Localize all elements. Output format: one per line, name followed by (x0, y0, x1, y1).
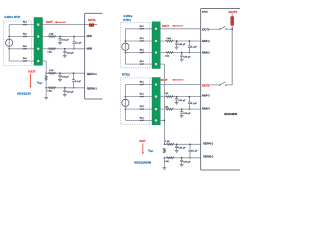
capacitor C4 0.01 uF to ground + ground (59, 73, 61, 75)
wire: RTD1 lead RL4 to terminal block (125, 62, 152, 65)
svg-text:RTD1: RTD1 (123, 18, 131, 22)
junction: RTD top sense node (8, 36, 10, 38)
svg-text:ADS1220: ADS1220 (17, 91, 31, 95)
wire: REFP to ADC (46, 72, 84, 75)
RTD2 lead resistance RL4 (140, 120, 144, 121)
terminal block J2 (RTD1) (152, 22, 160, 69)
capacitor C1 0.01 uF to ground + ground (59, 37, 61, 39)
annotation arrow: IOUT current direction (left) (56, 21, 66, 24)
junction: RTD2 AINN filter node (181, 108, 183, 110)
svg-text:REFP0-1: REFP0-1 (87, 73, 98, 76)
resistor R9 1 kOhm (REFP filter) (167, 143, 174, 145)
svg-text:AINN-3: AINN-3 (202, 107, 211, 110)
capacitor C3 0.1 uF differential AINP-AINN (73, 37, 75, 42)
RTD1 lead resistance RL2 (140, 40, 144, 41)
capacitor C11 0.01 uF to ground + ground (181, 109, 183, 112)
capacitor C5 0.01 uF to ground + ground (64, 88, 66, 91)
wire: RTD sensor vertical bus (124, 85, 127, 121)
capacitor C14 0.01 uF to ground + ground (181, 158, 183, 161)
resistor R4 1 kOhm (REFN filter) (48, 87, 55, 89)
wire: RTD1 excitation from mux pin (160, 27, 200, 30)
wire: REFP0-2 to ADC (164, 143, 200, 146)
terminal block J1 (left) (34, 18, 43, 66)
resistor R7 1 kOhm (166, 96, 173, 98)
capacitor C9 0.1 uF differential RTD1 (188, 41, 190, 46)
wire: RTD2 lead RL4 to terminal block (125, 119, 152, 122)
RTD1 lead resistance RL3 (140, 52, 144, 53)
wire: RTD2 AINN-3 signal (160, 107, 200, 110)
svg-text:AINP: AINP (86, 35, 92, 38)
reference resistor RREF (right) (163, 148, 165, 153)
wire: RTD sensor vertical bus (124, 29, 127, 64)
capacitor C13 0.01 uF to ground + ground (176, 144, 178, 146)
wire: REFN to ADC (46, 86, 84, 89)
junction: RTD bottom sense node (8, 48, 10, 50)
ADC boundary (ADS1220 partial outline) (83, 13, 86, 99)
junction: RTD1 AINP filter node (176, 40, 178, 42)
junction: REFN filter node (right) (181, 157, 183, 159)
junction: AINN filter node (64, 48, 66, 50)
svg-text:AINP-3: AINP-3 (202, 95, 210, 98)
svg-text:1 kΩ: 1 kΩ (164, 161, 169, 163)
junction: REFP filter node (59, 72, 61, 74)
wire: IDAC feed stub (231, 13, 234, 16)
capacitor C12 0.1 uF differential RTD2 (188, 97, 190, 102)
RTD1 lead resistance RL4 (140, 63, 144, 64)
svg-text:0.1 µF: 0.1 µF (191, 103, 198, 105)
junction: REFN node (right) (164, 157, 166, 159)
wire: lead RL2 to terminal block (9, 35, 34, 38)
capacitor C6 0.1 uF differential REFP-REFN (72, 73, 74, 80)
switch S1 (IDAC mux to RTD1) (219, 29, 220, 30)
RTD2 probe dashed enclosure (121, 78, 150, 124)
svg-text:IOUT: IOUT (28, 70, 35, 74)
wire: lead RL1 to terminal block (9, 23, 34, 26)
resistor R3 1 kOhm (REFP filter) (48, 72, 55, 74)
wire: lead RL4 to terminal block (9, 59, 34, 62)
wire: reference bus to ground (right) (163, 158, 166, 168)
svg-text:ADS124S08: ADS124S08 (134, 161, 151, 165)
annotation arrow: return current direction (left) (29, 74, 32, 87)
resistor R2 1 kOhm (AINN filter) (48, 48, 55, 50)
RTD2 lead resistance RL2 (140, 96, 144, 97)
svg-text:0.01 µF: 0.01 µF (178, 148, 186, 150)
svg-text:0.1 µF: 0.1 µF (76, 43, 83, 45)
junction: REFN filter node (64, 87, 66, 89)
wire: REFN0-2 to ADC (164, 156, 200, 159)
annotation arrow: RTD1 IOUT direction (174, 24, 184, 27)
svg-text:0.01 µF: 0.01 µF (184, 162, 192, 164)
junction: REFP node (right) (164, 143, 166, 145)
junction: REFN node (45, 87, 47, 89)
junction: RTD2 return on reference bus (164, 120, 166, 122)
wire: RTD2 lead RL2 to terminal block (125, 95, 152, 98)
svg-text:IOUT0: IOUT0 (202, 28, 210, 31)
junction: RTD bottom sense node (125, 52, 127, 54)
capacitor C15 0.1 uF differential REF (right) (189, 144, 191, 150)
lead resistance RL2 (23, 36, 27, 37)
svg-text:IOUT: IOUT (46, 20, 53, 24)
svg-text:REFP0-2: REFP0-2 (203, 142, 214, 145)
svg-text:0.01 µF: 0.01 µF (178, 44, 186, 46)
svg-text:0.01 µF: 0.01 µF (184, 56, 192, 58)
wire: switch row 1 stub (209, 28, 220, 31)
RTD probe dashed enclosure (left) (4, 21, 32, 66)
RTD1 probe dashed enclosure (121, 23, 150, 68)
svg-text:0.01 µF: 0.01 µF (178, 100, 186, 102)
RTD2 lead resistance RL1 (140, 84, 144, 85)
wire: IDAC bus down to mux switches (230, 25, 234, 85)
svg-text:RTD2: RTD2 (122, 73, 130, 77)
wire: lead RL3 to terminal block (9, 47, 34, 50)
resistor R10 1 kOhm (REFN filter) (167, 157, 174, 159)
wire: RTD sensor vertical bus (8, 25, 11, 61)
svg-text:0.01 µF: 0.01 µF (62, 76, 70, 78)
RTD2 lead resistance RL3 (140, 108, 144, 109)
wire: REFN return to ground (45, 88, 48, 98)
capacitor C2 0.01 uF to ground + ground (64, 49, 66, 52)
svg-text:REFN0-1: REFN0-1 (87, 88, 98, 91)
wire: switch row 1 to IDAC bus (227, 28, 233, 31)
svg-text:1 kΩ: 1 kΩ (47, 52, 52, 54)
switch S2 (IDAC mux to RTD2) (219, 84, 220, 85)
RTD1 lead resistance RL1 (140, 28, 144, 29)
svg-text:1 kΩ: 1 kΩ (165, 141, 170, 143)
svg-text:0.01 µF: 0.01 µF (67, 53, 75, 55)
RTD element (sensor circle) (6, 39, 13, 46)
svg-text:0.1 µF: 0.1 µF (192, 150, 199, 152)
junction: RTD1 AINN filter node (181, 52, 183, 54)
svg-text:AINN: AINN (86, 47, 92, 50)
wire: RTD1 return to shared reference bus (160, 62, 164, 65)
capacitor C7 0.01 uF to ground + ground (176, 41, 178, 43)
junction: RTD top sense node (125, 96, 127, 98)
ground (left reference return) (44, 96, 48, 98)
wire: shared reference bus (vertical) (163, 64, 166, 144)
svg-text:AINN-2: AINN-2 (202, 52, 211, 55)
svg-text:1 kΩ: 1 kΩ (167, 38, 172, 40)
junction: AINP filter node (59, 36, 61, 38)
wire: switch row 2 stub (209, 83, 220, 86)
resistor R1 1 kOhm (AINP filter) (48, 35, 55, 37)
junction: RTD2 AINP filter node (176, 96, 178, 98)
svg-text:4-Wire RTD: 4-Wire RTD (4, 15, 21, 19)
svg-text:1 kΩ: 1 kΩ (165, 55, 170, 57)
ground (right reference return) (162, 167, 166, 169)
svg-text:1 kΩ: 1 kΩ (49, 70, 54, 72)
wire: RTD1 lead RL1 to terminal block (125, 27, 152, 30)
svg-text:AINP-2: AINP-2 (202, 40, 210, 43)
capacitor C10 0.01 uF to ground + ground (176, 97, 178, 99)
svg-text:0.01 µF: 0.01 µF (184, 113, 192, 115)
wire: RTD1 AINN-2 signal (160, 51, 200, 54)
junction: REFP filter node (right) (176, 143, 178, 145)
lead resistance RL4 (23, 60, 27, 61)
wire: terminal 4 return to reference network (43, 59, 47, 62)
wire: AINP signal from terminal 2 (43, 35, 85, 38)
wire: RTD2 return joins reference bus (160, 119, 164, 122)
junction: RTD top sense node (125, 40, 127, 42)
lead resistance RL3 (23, 48, 27, 49)
svg-text:1 kΩ: 1 kΩ (47, 91, 52, 93)
junction: RTD bottom sense node (125, 108, 127, 110)
svg-text:0.01 µF: 0.01 µF (67, 92, 75, 94)
IDAC source element (red, vertical) (231, 17, 234, 21)
wire: RTD1 AINP-2 signal (160, 39, 200, 42)
junction: REFP node (45, 72, 47, 74)
svg-text:1 kΩ: 1 kΩ (49, 33, 54, 35)
IDAC source element (red) at IOUT1 pin (89, 24, 91, 27)
capacitor C8 0.01 uF to ground + ground (181, 53, 183, 56)
wire: RTD1 lead RL3 to terminal block (125, 51, 152, 54)
svg-text:0.1 µF: 0.1 µF (191, 47, 198, 49)
junction: IDAC bus at switch 1 (231, 28, 233, 30)
annotation arrow: RTD2 IOUT direction (174, 78, 184, 81)
wire: RTD2 AINP-3 signal (160, 95, 200, 98)
annotation arrow: return current direction (right) (141, 144, 144, 154)
RTD element (sensor circle) (122, 99, 129, 106)
svg-text:IOUT1: IOUT1 (202, 84, 210, 87)
RTD element (sensor circle) (122, 43, 129, 50)
svg-text:0.1 µF: 0.1 µF (75, 81, 82, 83)
wire: RTD1 lead RL2 to terminal block (125, 39, 152, 42)
wire: RTD2 lead RL1 to terminal block (125, 83, 152, 86)
svg-text:0.01 µF: 0.01 µF (62, 40, 70, 42)
terminal block J3 (RTD2) (152, 78, 160, 125)
resistor R8 1 kOhm (166, 108, 173, 110)
wire: RTD2 lead RL3 to terminal block (125, 107, 152, 110)
svg-text:IOUT: IOUT (162, 24, 169, 28)
wire: excitation IOUT from ADC to terminal 1 (43, 23, 90, 26)
ADC boundary (ADS124S08 outline) (199, 9, 202, 170)
wire: RTD2 excitation from mux pin (160, 83, 200, 86)
resistor R6 1 kOhm (166, 51, 173, 53)
wire: switch row 2 to IDAC bus corner (227, 83, 233, 86)
svg-text:4-Wire: 4-Wire (123, 14, 132, 18)
svg-text:IOUT0: IOUT0 (229, 10, 238, 14)
lead resistance RL1 (23, 24, 27, 25)
wire: AINN signal from terminal 3 (43, 47, 85, 50)
reference resistor RREF (left) (45, 73, 48, 75)
svg-text:REFN0-2: REFN0-2 (203, 155, 214, 158)
resistor R5 1 kOhm (166, 40, 173, 42)
